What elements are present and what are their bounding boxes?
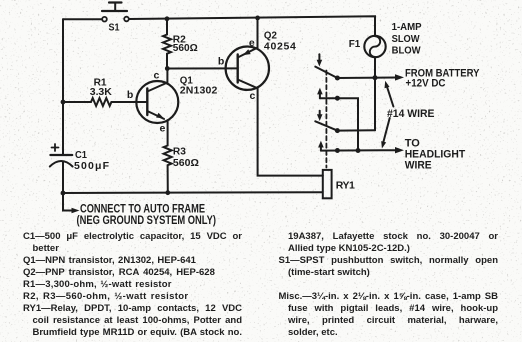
svg-text:1-AMP: 1-AMP bbox=[392, 21, 422, 33]
svg-text:S1: S1 bbox=[109, 22, 120, 34]
svg-text:2N1302: 2N1302 bbox=[180, 84, 218, 96]
svg-text:(NEG GROUND SYSTEM ONLY): (NEG GROUND SYSTEM ONLY) bbox=[77, 213, 217, 227]
svg-text:40254: 40254 bbox=[264, 40, 296, 52]
svg-text:R3: R3 bbox=[173, 145, 186, 157]
svg-text:F1: F1 bbox=[349, 38, 361, 50]
svg-text:BLOW: BLOW bbox=[392, 45, 421, 57]
svg-text:560Ω: 560Ω bbox=[173, 157, 199, 169]
svg-text:e: e bbox=[160, 122, 166, 134]
svg-text:500μF: 500μF bbox=[74, 160, 110, 172]
svg-text:SLOW: SLOW bbox=[392, 33, 420, 45]
svg-text:WIRE: WIRE bbox=[405, 160, 432, 172]
svg-text:560Ω: 560Ω bbox=[173, 42, 198, 54]
svg-text:b: b bbox=[218, 56, 224, 68]
svg-text:3.3K: 3.3K bbox=[90, 86, 112, 98]
svg-text:c: c bbox=[154, 70, 160, 82]
svg-text:e: e bbox=[249, 37, 255, 49]
svg-text:#14 WIRE: #14 WIRE bbox=[387, 108, 435, 120]
svg-text:RY1: RY1 bbox=[336, 179, 355, 191]
svg-text:+12V DC: +12V DC bbox=[406, 77, 446, 89]
svg-text:b: b bbox=[127, 89, 133, 101]
svg-text:c: c bbox=[250, 90, 256, 102]
svg-text:TO: TO bbox=[405, 137, 421, 149]
